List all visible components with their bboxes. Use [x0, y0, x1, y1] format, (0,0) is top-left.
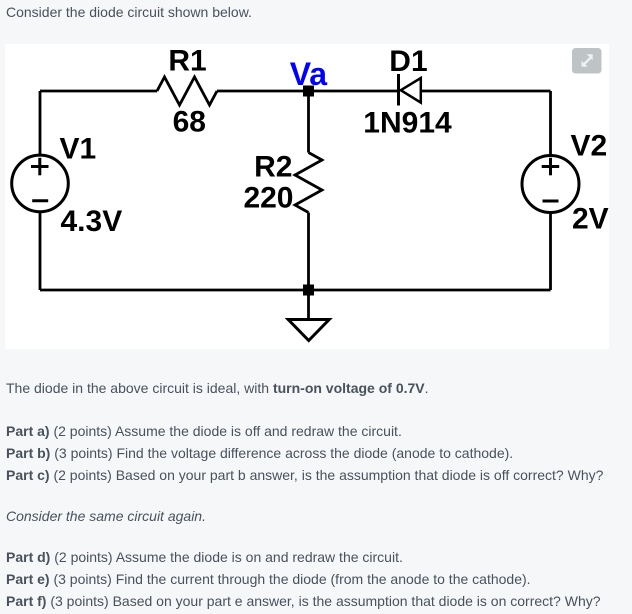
svg-text:V1: V1 — [60, 133, 97, 166]
svg-text:D1: D1 — [389, 45, 427, 78]
svg-text:R1: R1 — [168, 45, 206, 78]
svg-text:V2: V2 — [571, 130, 608, 163]
svg-text:R2: R2 — [254, 151, 292, 184]
svg-text:Va: Va — [290, 56, 328, 92]
svg-text:1N914: 1N914 — [363, 107, 452, 140]
svg-text:68: 68 — [173, 106, 206, 139]
svg-text:220: 220 — [243, 182, 293, 215]
svg-text:2V: 2V — [572, 202, 609, 235]
svg-text:4.3V: 4.3V — [61, 205, 123, 238]
